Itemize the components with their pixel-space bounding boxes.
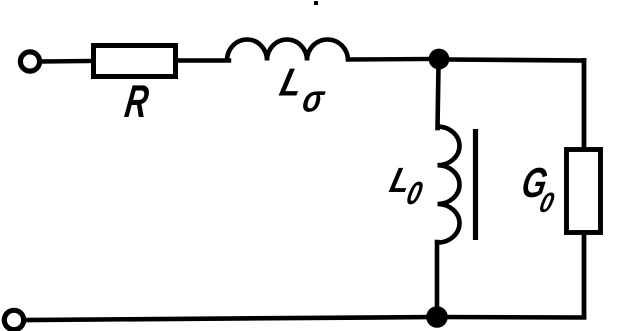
- wire (bottom return): [26, 317, 584, 320]
- node A (top junction): [429, 49, 450, 70]
- resistor R: [94, 46, 176, 77]
- inductor L0: [438, 127, 460, 243]
- wire: [41, 59, 93, 64]
- inductor Lσ: [227, 40, 348, 61]
- conductance G0: [567, 150, 601, 233]
- wire: [448, 60, 584, 61]
- wire: [438, 66, 439, 128]
- speck: [314, 1, 318, 5]
- wire: [178, 58, 229, 62]
- wire: [435, 242, 440, 308]
- terminal T2 (bottom-left): [4, 310, 23, 329]
- node B (bottom junction): [426, 306, 448, 328]
- wire: [582, 234, 587, 317]
- terminal T1 (top-left input): [20, 52, 39, 71]
- core bar: [473, 129, 478, 240]
- svg-text:σ: σ: [299, 79, 328, 121]
- svg-text:R: R: [122, 76, 152, 127]
- wire: [348, 57, 432, 62]
- wire: [582, 61, 587, 150]
